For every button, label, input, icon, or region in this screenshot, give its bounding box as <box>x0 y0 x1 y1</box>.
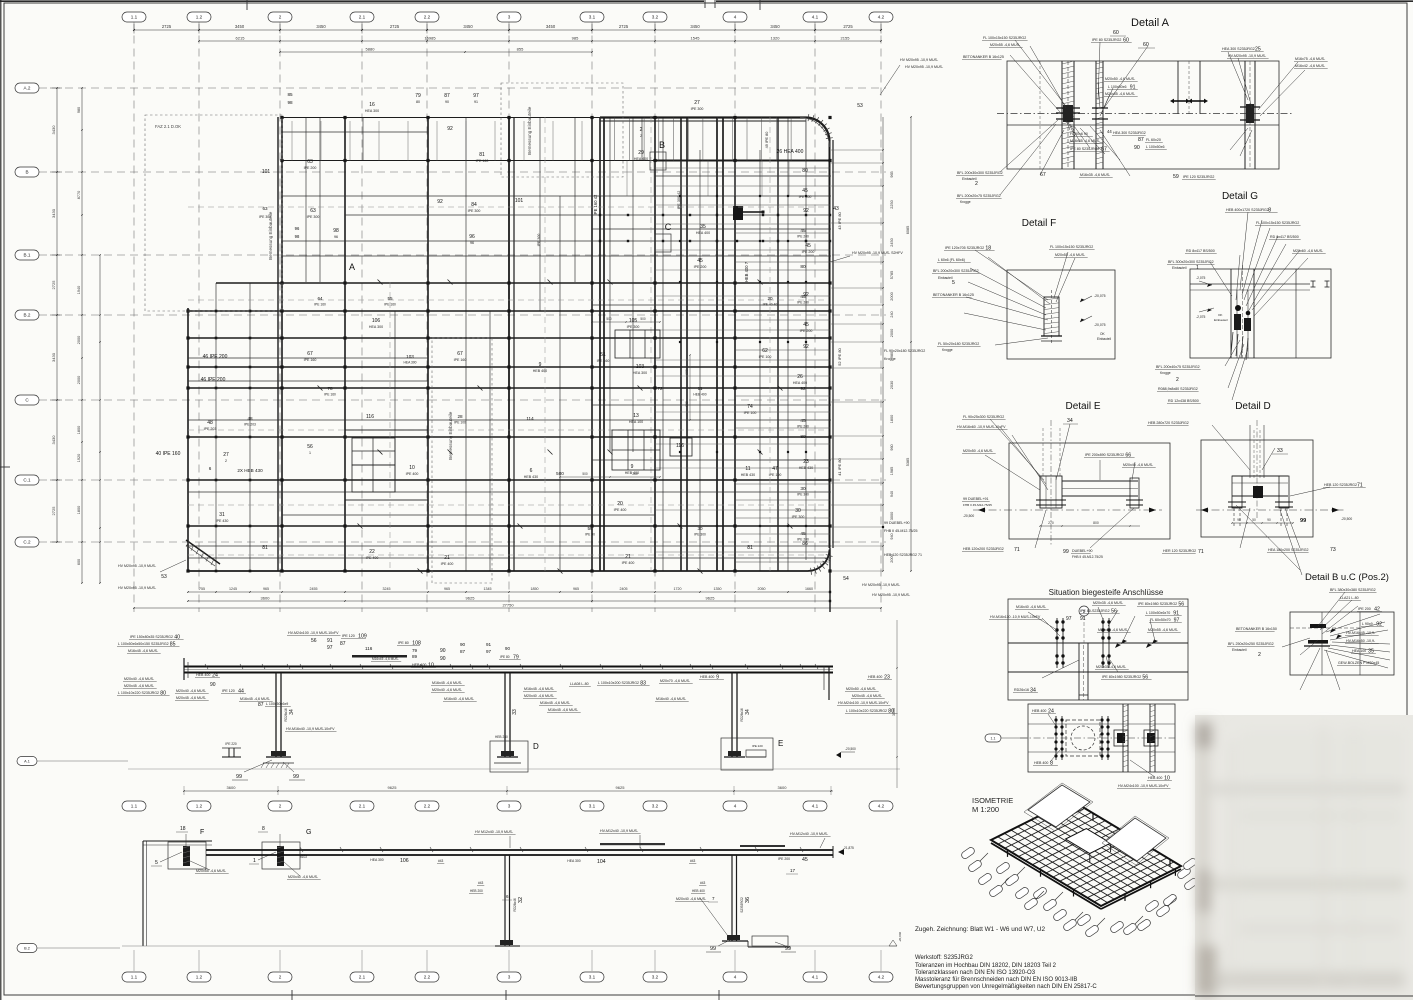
svg-text:B.2: B.2 <box>24 313 31 318</box>
svg-text:HV M20x95 -10,9 MUS-: HV M20x95 -10,9 MUS- <box>905 65 944 69</box>
svg-text:48: 48 <box>247 416 253 421</box>
Detail D anchors below <box>1233 508 1235 528</box>
svg-text:IPE 300: IPE 300 <box>627 325 640 329</box>
svg-text:60: 60 <box>1113 30 1119 36</box>
Detail B u.C frame <box>1290 612 1394 675</box>
svg-text:5: 5 <box>952 280 955 286</box>
svg-text:2: 2 <box>225 459 227 463</box>
svg-text:99 DUEBEL+91: 99 DUEBEL+91 <box>963 497 988 501</box>
isometric plate 2 white <box>1106 818 1166 861</box>
svg-text:M20x45 -4,6 MUS-: M20x45 -4,6 MUS- <box>124 684 155 688</box>
isometric mesh <box>991 800 1181 906</box>
elevation1 dimension row <box>184 790 833 792</box>
left dimension chain x=57 <box>56 88 58 542</box>
svg-text:2.2: 2.2 <box>424 804 431 809</box>
svg-text:1850: 1850 <box>531 587 539 591</box>
svg-text:M16x40 -4,6 MUS-: M16x40 -4,6 MUS- <box>1016 605 1047 609</box>
svg-text:3450: 3450 <box>546 24 556 29</box>
svg-text:HEB 400 7: HEB 400 7 <box>744 261 749 282</box>
svg-text:M20x40 -4,6 MUS-: M20x40 -4,6 MUS- <box>676 897 707 901</box>
Bemessung Einbauteile dashed region middle-left <box>432 338 492 583</box>
elevation1 right end level mark <box>836 752 841 758</box>
elevation1 column 1 base <box>266 756 291 758</box>
plan small rect near C <box>655 234 671 252</box>
svg-text:45: 45 <box>800 418 806 424</box>
svg-text:3.1: 3.1 <box>589 15 596 20</box>
connection plan bolt squares <box>1114 730 1128 746</box>
svg-text:Detail D: Detail D <box>1235 401 1271 412</box>
svg-text:90: 90 <box>1267 518 1271 522</box>
svg-text:965: 965 <box>573 587 579 591</box>
svg-text:-2,075: -2,075 <box>1196 276 1206 280</box>
svg-text:HEB 400: HEB 400 <box>692 889 705 893</box>
svg-text:56: 56 <box>311 638 317 644</box>
svg-text:4: 4 <box>734 804 737 809</box>
svg-text:IPE 300: IPE 300 <box>259 215 271 219</box>
svg-text:FL 100x15x150 S235JRG2: FL 100x15x150 S235JRG2 <box>1256 221 1299 225</box>
svg-text:6: 6 <box>530 468 533 474</box>
svg-text:FL 50x20x180 S235JRG2: FL 50x20x180 S235JRG2 <box>938 342 979 346</box>
Detail A dashed vertical left of frame <box>1039 61 1041 169</box>
svg-text:L 100x10x220 S235JRG2: L 100x10x220 S235JRG2 <box>846 709 887 713</box>
svg-text:HV-M16x45 -10,9-: HV-M16x45 -10,9- <box>1346 631 1376 635</box>
Detail E dim line <box>1040 525 1140 527</box>
svg-text:3500: 3500 <box>892 708 896 716</box>
svg-text:IPE 160: IPE 160 <box>314 303 326 307</box>
svg-text:IPE 300: IPE 300 <box>797 493 809 497</box>
elevation2 beam marks <box>300 847 303 852</box>
svg-text:1660: 1660 <box>805 587 813 591</box>
svg-text:90: 90 <box>440 648 446 654</box>
svg-text:104: 104 <box>597 859 606 865</box>
svg-text:IPE 200: IPE 200 <box>802 250 815 254</box>
svg-text:116: 116 <box>366 414 374 420</box>
svg-text:HEA 300: HEA 300 <box>370 858 383 862</box>
elevation1 left edge bubble <box>17 757 37 766</box>
bottom dimension line 1 <box>188 591 830 593</box>
svg-text:M20x55 -4,6 MUS-: M20x55 -4,6 MUS- <box>1055 253 1086 257</box>
svg-text:HV-M24x100 -10,9 MUS-10xFV: HV-M24x100 -10,9 MUS-10xFV <box>288 631 339 635</box>
svg-text:2: 2 <box>279 15 282 20</box>
Detail A axis dashed horizontal <box>997 113 1292 115</box>
svg-text:9625: 9625 <box>616 785 626 790</box>
Detail A bolt cluster left <box>1056 107 1080 109</box>
svg-text:HV-M24x100 -10,9 MUS-10xFV: HV-M24x100 -10,9 MUS-10xFV <box>1118 784 1169 788</box>
svg-text:90: 90 <box>210 682 216 688</box>
svg-text:HEA 300: HEA 300 <box>403 361 416 365</box>
svg-text:101: 101 <box>262 169 271 175</box>
svg-text:Werkstoff: S235JRG2: Werkstoff: S235JRG2 <box>915 955 973 961</box>
svg-text:LLA21 L-80: LLA21 L-80 <box>1340 596 1359 600</box>
Detail A right column <box>1244 61 1246 169</box>
svg-text:HER 120 S235JRG2: HER 120 S235JRG2 <box>1163 549 1196 553</box>
fold mark top x=760 <box>759 0 761 10</box>
svg-text:28: 28 <box>457 414 463 419</box>
svg-text:M20x60 -4,6 MUS-: M20x60 -4,6 MUS- <box>1293 249 1324 253</box>
svg-text:L 90x9: L 90x9 <box>1362 622 1373 626</box>
svg-text:BFL 380x30x380 S235JRG2: BFL 380x30x380 S235JRG2 <box>1330 588 1376 592</box>
svg-text:27: 27 <box>223 452 229 458</box>
Situation leaders <box>1028 612 1057 630</box>
svg-text:BFL 200x20x75 S235JRG2: BFL 200x20x75 S235JRG2 <box>957 194 1001 198</box>
plan axis bubbles left column <box>15 83 39 93</box>
svg-text:2725: 2725 <box>162 24 172 29</box>
svg-text:Krogge: Krogge <box>884 357 896 361</box>
svg-text:IPE 160: IPE 160 <box>384 303 396 307</box>
svg-text:2: 2 <box>975 181 978 187</box>
svg-text:M20x50 -4,6 MUS-: M20x50 -4,6 MUS- <box>1105 77 1136 81</box>
Detail A column web line <box>1067 61 1069 169</box>
svg-text:B.1: B.1 <box>24 253 31 258</box>
svg-text:80: 80 <box>800 264 806 270</box>
svg-text:26: 26 <box>797 374 803 380</box>
svg-text:116: 116 <box>365 646 373 651</box>
svg-text:IPE 200: IPE 200 <box>797 425 809 429</box>
plan joist rows mid band <box>655 167 735 169</box>
svg-text:RD 8x417 BS/500: RD 8x417 BS/500 <box>1270 235 1299 239</box>
svg-text:FL 100x15x150 S235JRG2: FL 100x15x150 S235JRG2 <box>983 36 1026 40</box>
svg-text:HEB 400: HEB 400 <box>412 663 426 667</box>
Detail G leaders top <box>1240 212 1248 290</box>
svg-text:2000: 2000 <box>77 336 81 344</box>
top dimension line 1 <box>134 29 881 31</box>
connection plan center circle <box>1071 726 1095 750</box>
svg-text:22: 22 <box>369 549 375 555</box>
svg-text:99: 99 <box>1063 549 1069 555</box>
svg-text:2: 2 <box>279 804 282 809</box>
elevation2 left portal column <box>142 841 144 946</box>
svg-text:FL 60x20: FL 60x20 <box>1146 138 1161 142</box>
svg-text:9625: 9625 <box>466 596 476 601</box>
svg-text:2X HEB 430: 2X HEB 430 <box>237 468 263 473</box>
svg-text:1: 1 <box>1196 265 1199 271</box>
svg-text:99: 99 <box>236 774 242 780</box>
isometric plate 1 white <box>1028 785 1090 827</box>
Detail G frame <box>1190 269 1331 358</box>
svg-text:M16x45 -4,6 MUS-: M16x45 -4,6 MUS- <box>540 701 571 705</box>
svg-text:5880: 5880 <box>366 47 376 52</box>
svg-text:BETONANKER B 16x125: BETONANKER B 16x125 <box>963 55 1004 59</box>
svg-text:86: 86 <box>802 541 808 547</box>
svg-text:6085: 6085 <box>906 226 910 234</box>
svg-text:50: 50 <box>1252 518 1256 522</box>
svg-text:IPE 200: IPE 200 <box>304 166 317 170</box>
svg-text:HEB 400: HEB 400 <box>700 675 714 679</box>
svg-text:81: 81 <box>479 152 485 158</box>
svg-text:M16x45 -4,6 MUS-: M16x45 -4,6 MUS- <box>372 657 399 661</box>
svg-text:4.2: 4.2 <box>878 804 885 809</box>
svg-text:2725: 2725 <box>51 506 56 516</box>
svg-text:1245: 1245 <box>229 587 237 591</box>
svg-text:260: 260 <box>632 472 638 476</box>
svg-text:8: 8 <box>262 826 265 832</box>
svg-text:Toleranzklassen nach DIN EN IS: Toleranzklassen nach DIN EN ISO 13920-O3 <box>915 970 1036 976</box>
svg-text:8770: 8770 <box>77 191 81 199</box>
svg-text:IPE 300: IPE 300 <box>792 515 805 519</box>
svg-text:HEB 430: HEB 430 <box>741 473 755 477</box>
svg-text:240: 240 <box>890 311 894 317</box>
svg-text:L 100x50x6: L 100x50x6 <box>1146 145 1164 149</box>
svg-text:#43: #43 <box>438 859 444 863</box>
svg-text:B: B <box>659 140 665 150</box>
svg-text:33: 33 <box>512 709 518 715</box>
svg-text:78: 78 <box>327 386 333 391</box>
svg-text:49 IPE 80: 49 IPE 80 <box>765 132 769 149</box>
elevation2 right beam end <box>832 846 834 858</box>
svg-text:4: 4 <box>734 975 737 980</box>
Situation frame <box>1008 599 1188 700</box>
left dimension chain x=100 <box>99 255 101 583</box>
svg-text:3430: 3430 <box>51 435 56 445</box>
svg-text:HV-M20x95 -10,9 MUS-: HV-M20x95 -10,9 MUS- <box>1228 54 1267 58</box>
svg-text:71: 71 <box>1198 549 1204 555</box>
svg-text:Detail E: Detail E <box>1065 401 1100 412</box>
svg-text:IPE 220: IPE 220 <box>752 744 763 748</box>
svg-text:M16x40 -4,6 MUS-: M16x40 -4,6 MUS- <box>444 697 475 701</box>
svg-text:45: 45 <box>802 857 808 863</box>
svg-text:89: 89 <box>412 654 418 659</box>
svg-text:HEB 200: HEB 200 <box>470 889 483 893</box>
svg-text:HEB 120x200 S235JRG2: HEB 120x200 S235JRG2 <box>963 547 1004 551</box>
svg-text:74: 74 <box>747 404 753 410</box>
svg-text:3245: 3245 <box>383 587 391 591</box>
svg-text:5385: 5385 <box>906 458 910 466</box>
svg-text:87: 87 <box>340 641 346 647</box>
svg-text:45: 45 <box>800 531 806 537</box>
connection plan bolt group left <box>1055 716 1057 760</box>
svg-text:1350: 1350 <box>714 587 722 591</box>
svg-text:Detail B u.C (Pos.2): Detail B u.C (Pos.2) <box>1305 572 1389 583</box>
svg-text:7: 7 <box>712 896 715 901</box>
plan faint dashed beam axes horizontal <box>188 206 828 208</box>
svg-text:HEB 400: HEB 400 <box>1032 709 1046 713</box>
plan node squares <box>186 309 189 312</box>
elevation1 main beam <box>184 666 833 668</box>
svg-text:BFL 200x40x75 S235JRG2: BFL 200x40x75 S235JRG2 <box>1156 365 1200 369</box>
svg-text:M20x55 -4,6 MUS-: M20x55 -4,6 MUS- <box>196 869 227 873</box>
Situation beam lines <box>1008 642 1188 644</box>
svg-text:54: 54 <box>843 576 849 582</box>
svg-text:IPE 160: IPE 160 <box>324 393 336 397</box>
svg-text:HV-M24x100 -10,9 MUS-10xFV: HV-M24x100 -10,9 MUS-10xFV <box>838 701 889 705</box>
svg-text:IPE 300: IPE 300 <box>537 234 541 247</box>
svg-text:56: 56 <box>307 444 313 450</box>
svg-text:90: 90 <box>505 646 510 651</box>
svg-text:1: 1 <box>309 451 311 455</box>
svg-text:IPE 120: IPE 120 <box>222 689 235 693</box>
svg-text:92: 92 <box>447 126 453 132</box>
svg-text:HEB 430: HEB 430 <box>524 475 538 479</box>
svg-text:FL 100x15x150 S235JRG2: FL 100x15x150 S235JRG2 <box>1050 245 1093 249</box>
svg-text:A.2: A.2 <box>24 86 31 91</box>
Detail D base bolts <box>1228 501 1246 503</box>
svg-text:2000: 2000 <box>890 329 894 337</box>
svg-text:500: 500 <box>556 471 564 476</box>
svg-text:HEA 100: HEA 100 <box>629 420 643 424</box>
svg-text:HEB 400: HEB 400 <box>196 673 210 677</box>
svg-text:2000: 2000 <box>890 292 894 300</box>
Detail A stiffener vertical 2 <box>1095 61 1097 169</box>
svg-text:2: 2 <box>279 975 282 980</box>
svg-text:96: 96 <box>334 235 338 239</box>
svg-text:HV-M16x110 -10,9 MUS-10xFV: HV-M16x110 -10,9 MUS-10xFV <box>990 615 1041 619</box>
svg-text:45: 45 <box>803 322 809 328</box>
svg-text:HEA 300: HEA 300 <box>567 859 580 863</box>
svg-text:IPE 200: IPE 200 <box>797 301 809 305</box>
Detail E beam IPE <box>1062 480 1138 482</box>
svg-text:80: 80 <box>800 434 806 440</box>
svg-text:L 100x50x6x70: L 100x50x6x70 <box>1146 611 1170 615</box>
svg-text:Detail A: Detail A <box>1131 17 1170 29</box>
svg-text:M20x40 -4,6 MUS-: M20x40 -4,6 MUS- <box>524 694 555 698</box>
plan axis horizontal grid lines dashed <box>39 87 886 89</box>
svg-text:3.1: 3.1 <box>589 804 596 809</box>
plan inner mini dimension rows <box>592 321 660 323</box>
svg-text:2725: 2725 <box>51 280 56 290</box>
svg-text:IPE 80 S235JRG2: IPE 80 S235JRG2 <box>1070 147 1099 151</box>
svg-text:M16x45 -4,6 MUS-: M16x45 -4,6 MUS- <box>128 649 159 653</box>
svg-text:IPE 100: IPE 100 <box>769 473 782 477</box>
svg-text:M16x42 -4,6 MUS-: M16x42 -4,6 MUS- <box>1295 64 1326 68</box>
svg-text:900: 900 <box>685 369 689 375</box>
svg-text:6: 6 <box>209 466 212 471</box>
svg-text:755: 755 <box>199 587 205 591</box>
svg-text:-20,075: -20,075 <box>1094 294 1106 298</box>
svg-text:45: 45 <box>802 188 808 194</box>
svg-text:91: 91 <box>1080 616 1086 622</box>
svg-text:HV-M16x40 -10,9 MUS-10xFV: HV-M16x40 -10,9 MUS-10xFV <box>286 727 335 731</box>
svg-text:90: 90 <box>1237 518 1241 522</box>
elevation1 ground line <box>128 768 900 770</box>
svg-text:3000: 3000 <box>890 512 894 520</box>
svg-text:IPE 160: IPE 160 <box>304 358 317 362</box>
Detail D dims <box>1232 522 1293 524</box>
svg-text:A: A <box>349 262 355 272</box>
svg-text:98: 98 <box>287 100 293 105</box>
svg-text:99: 99 <box>293 774 299 780</box>
svg-text:27750: 27750 <box>502 603 514 608</box>
Detail F arrows <box>1080 299 1085 303</box>
svg-text:L 100x10x220 S235JRG2: L 100x10x220 S235JRG2 <box>118 691 159 695</box>
svg-text:Einbauteil: Einbauteil <box>938 276 953 280</box>
svg-text:103: 103 <box>406 354 414 359</box>
plan top arc hatch <box>807 114 810 121</box>
svg-text:3600: 3600 <box>778 785 788 790</box>
svg-text:2.1: 2.1 <box>359 15 366 20</box>
svg-text:Toleranzen im Hochbau DIN 1820: Toleranzen im Hochbau DIN 18202, DIN 182… <box>915 963 1057 969</box>
svg-text:FL 60x50x70: FL 60x50x70 <box>1150 618 1171 622</box>
svg-text:4.2: 4.2 <box>878 15 885 20</box>
svg-text:2725: 2725 <box>843 24 853 29</box>
svg-text:M16x40 -4,6 MUS-: M16x40 -4,6 MUS- <box>656 697 687 701</box>
Situation center column <box>1078 643 1080 700</box>
svg-text:985: 985 <box>572 36 579 41</box>
svg-text:HEA 400: HEA 400 <box>696 231 710 235</box>
svg-text:270: 270 <box>1048 521 1054 525</box>
left dimension chain x=82 <box>81 88 83 583</box>
svg-text:52 IPE 80: 52 IPE 80 <box>837 347 842 365</box>
connection plan bolt group mid <box>1101 716 1103 760</box>
svg-text:M20x55 -4,6 MUS-: M20x55 -4,6 MUS- <box>1105 92 1136 96</box>
svg-text:46 IPE 200: 46 IPE 200 <box>201 377 226 383</box>
svg-text:FHB II 45-M12-75/25: FHB II 45-M12-75/25 <box>884 529 918 533</box>
svg-text:IPE 203: IPE 203 <box>244 423 256 427</box>
elevation1 right height dim line <box>896 620 898 788</box>
svg-text:BFL 250x20x250 S235JRG2: BFL 250x20x250 S235JRG2 <box>1228 642 1274 646</box>
svg-text:2450: 2450 <box>890 238 894 246</box>
svg-text:6: 6 <box>506 894 509 899</box>
top dimension line 2 <box>199 40 655 42</box>
svg-text:RD26x46: RD26x46 <box>513 898 517 912</box>
svg-text:2725: 2725 <box>390 24 400 29</box>
elevation1 box E <box>721 738 773 770</box>
svg-text:HV-M16x50 -10,9-: HV-M16x50 -10,9- <box>1346 639 1376 643</box>
svg-text:L 60x6 (FL 60x6): L 60x6 (FL 60x6) <box>938 258 965 262</box>
svg-text:2: 2 <box>640 134 642 138</box>
svg-text:91: 91 <box>327 638 333 644</box>
svg-text:17: 17 <box>790 868 796 873</box>
svg-text:#43: #43 <box>478 881 484 885</box>
isometric column stubs <box>1007 850 1009 857</box>
elevation2 main beam <box>206 849 833 851</box>
elevation1 right end <box>828 667 830 701</box>
svg-text:2405: 2405 <box>620 587 628 591</box>
svg-text:2050: 2050 <box>758 587 766 591</box>
svg-text:Einbauteil: Einbauteil <box>1097 337 1111 341</box>
Detail F base plate <box>1041 335 1062 337</box>
svg-text:#43: #43 <box>700 881 706 885</box>
svg-text:860: 860 <box>685 401 689 407</box>
svg-text:81: 81 <box>747 545 753 551</box>
svg-text:HV M20x95 -10,9 MUS-: HV M20x95 -10,9 MUS- <box>118 586 157 590</box>
svg-text:30: 30 <box>697 526 703 531</box>
svg-text:34: 34 <box>1067 418 1073 424</box>
svg-text:L 100x50x6: L 100x50x6 <box>1108 85 1126 89</box>
svg-text:1.1: 1.1 <box>991 737 996 741</box>
svg-text:HV M20x95 -10,9 MUS-: HV M20x95 -10,9 MUS- <box>872 593 911 597</box>
elevation1 column 3 <box>731 673 733 758</box>
svg-text:IPE 300 42: IPE 300 42 <box>677 191 681 210</box>
svg-text:#43: #43 <box>690 859 696 863</box>
svg-text:IPE 80 S235JRG2: IPE 80 S235JRG2 <box>1092 38 1121 42</box>
svg-text:3600: 3600 <box>227 785 237 790</box>
svg-text:940: 940 <box>890 533 894 539</box>
svg-text:45: 45 <box>697 258 703 264</box>
svg-text:HEB 400: HEB 400 <box>1148 776 1162 780</box>
svg-text:IPE 100: IPE 100 <box>744 411 757 415</box>
svg-text:4.1: 4.1 <box>812 15 819 20</box>
svg-text:Krogge: Krogge <box>942 348 953 352</box>
Situation bolt group left <box>1056 618 1058 668</box>
svg-text:3450: 3450 <box>690 24 700 29</box>
Detail D leaders <box>1212 425 1250 470</box>
right dimension chain x=911 <box>910 117 912 571</box>
svg-text:M20x50 -4,6 MUS-: M20x50 -4,6 MUS- <box>963 449 994 453</box>
svg-text:IPE 160: IPE 160 <box>476 159 489 163</box>
svg-text:34: 34 <box>289 709 295 715</box>
svg-text:HEB 400: HEB 400 <box>533 369 547 373</box>
svg-text:67: 67 <box>457 351 463 357</box>
connection plan horizontal center dashed <box>1020 737 1175 739</box>
svg-text:81: 81 <box>262 545 268 551</box>
svg-text:500: 500 <box>640 317 646 321</box>
svg-text:72: 72 <box>657 386 663 391</box>
Detail B u.C leader fan <box>1318 592 1345 626</box>
svg-text:2.1: 2.1 <box>359 975 366 980</box>
svg-text:IPE 300: IPE 300 <box>691 107 704 111</box>
svg-text:-20,500: -20,500 <box>963 514 974 518</box>
svg-text:M16x45 -4,6 MUS-: M16x45 -4,6 MUS- <box>524 687 555 691</box>
